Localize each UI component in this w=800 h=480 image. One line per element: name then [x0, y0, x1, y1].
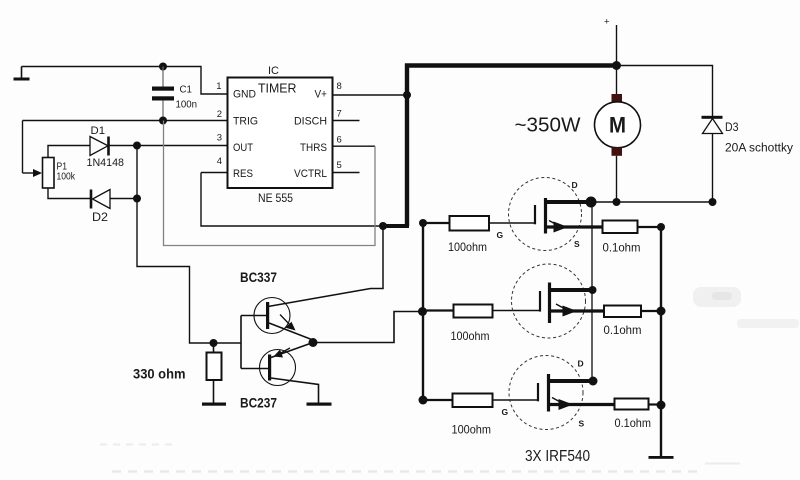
- node motor bottom junction: [613, 198, 621, 206]
- svg-text:OUT: OUT: [233, 142, 253, 154]
- motor M: [595, 94, 641, 156]
- node C1 top junction: [159, 63, 167, 71]
- resistor 330 ohm: [207, 343, 222, 403]
- svg-text:100ohm: 100ohm: [451, 329, 490, 343]
- svg-text:G: G: [497, 230, 504, 240]
- wire gate row1: [423, 222, 450, 224]
- ground top-left: [14, 67, 30, 81]
- resistor R4 0.1ohm: [603, 221, 638, 234]
- svg-text:1: 1: [216, 81, 221, 92]
- resistor R6 0.1ohm: [615, 399, 649, 410]
- node base resistor junction: [210, 339, 218, 347]
- node source rail row1: [657, 223, 665, 231]
- wire THRS feedback loop to C1: [164, 121, 376, 246]
- svg-text:4: 4: [217, 156, 222, 167]
- svg-text:3X IRF540: 3X IRF540: [525, 448, 590, 465]
- wire to P1 wiper: [23, 121, 43, 178]
- svg-text:330 ohm: 330 ohm: [133, 367, 186, 382]
- pin numbers: [216, 81, 342, 171]
- svg-text:DISCH: DISCH: [294, 116, 327, 128]
- node source rail row3: [657, 401, 666, 410]
- node gate rail row3: [419, 396, 428, 405]
- ground source rail: [649, 456, 674, 459]
- svg-text:RES: RES: [233, 168, 253, 180]
- wire thick V+ vertical: [405, 64, 409, 227]
- wire driver output to gate rail: [313, 312, 423, 343]
- ground BC237: [307, 403, 332, 406]
- wire thick V+ node link: [383, 224, 409, 228]
- resistor R5 0.1ohm: [604, 306, 641, 318]
- svg-text:~350W: ~350W: [515, 114, 582, 137]
- node gate rail row2: [418, 307, 427, 316]
- resistor R1 100ohm: [450, 216, 490, 231]
- svg-text:0.1ohm: 0.1ohm: [603, 241, 641, 255]
- svg-text:D: D: [578, 359, 584, 369]
- svg-text:2: 2: [217, 109, 222, 120]
- wire OUT pin3: [109, 145, 228, 147]
- resistor R2 100ohm: [454, 305, 493, 318]
- wire TRIG pin2: [23, 120, 228, 122]
- svg-text:3: 3: [217, 133, 222, 144]
- node TRIG junction: [159, 117, 167, 125]
- wire gate row2: [423, 309, 454, 311]
- svg-text:TIMER: TIMER: [258, 82, 297, 96]
- wire R1 to gate Q3: [489, 222, 535, 224]
- wire drain bus: [591, 202, 593, 381]
- wire gate rail left: [422, 223, 424, 400]
- svg-text:M: M: [609, 113, 626, 138]
- node drain bus row3: [589, 377, 598, 386]
- wire gate row3: [423, 399, 453, 401]
- svg-text:THRS: THRS: [300, 142, 327, 154]
- wire P1 top to D1 anode: [48, 146, 90, 158]
- svg-text:1N4148: 1N4148: [87, 157, 125, 169]
- svg-text:20A schottky: 20A schottky: [725, 143, 793, 155]
- svg-text:VCTRL: VCTRL: [294, 168, 327, 180]
- node drain bus row2: [589, 286, 597, 294]
- svg-text:NE 555: NE 555: [258, 193, 293, 205]
- svg-text:S: S: [574, 239, 580, 249]
- diode D1: [90, 137, 109, 156]
- wire R2 to gate Q4: [493, 310, 541, 312]
- wire drain node to D3 bottom: [591, 201, 713, 203]
- svg-text:+: +: [604, 17, 610, 28]
- svg-text:D3: D3: [725, 120, 739, 134]
- transistor Q5 IRF540 row3: [509, 356, 615, 430]
- node RES/V+ junction: [379, 222, 387, 230]
- wire motor bottom lead: [616, 156, 618, 202]
- transistor Q1 BC337: [241, 298, 313, 343]
- svg-text:0.1ohm: 0.1ohm: [604, 323, 642, 337]
- svg-text:GND: GND: [233, 89, 256, 101]
- transistor Q3 IRF540 row1: [509, 178, 603, 251]
- svg-text:BC237: BC237: [240, 396, 277, 411]
- wire pin5 VCTRL stub: [333, 172, 360, 174]
- node OUT junction: [133, 142, 141, 150]
- wire R4 to source rail: [638, 226, 662, 228]
- wire R5 to source rail: [641, 310, 661, 312]
- label D1 1N4148: [87, 125, 125, 169]
- ground 330 ohm: [202, 403, 226, 406]
- capacitor C1: [152, 67, 174, 121]
- wire pin7 DISCH stub: [333, 120, 360, 122]
- node pin8 junction: [403, 91, 411, 99]
- node D2 junction: [133, 195, 141, 203]
- svg-text:100ohm: 100ohm: [448, 240, 487, 254]
- wire P1 bottom to D2: [48, 188, 91, 199]
- wire source rail right: [660, 227, 662, 457]
- svg-text:100ohm: 100ohm: [452, 423, 492, 437]
- svg-text:BC337: BC337: [240, 270, 277, 285]
- svg-text:S: S: [579, 419, 585, 429]
- wire rail to D3 top: [617, 66, 713, 117]
- svg-text:C1: C1: [180, 85, 193, 96]
- wire thick V+ top rail: [405, 63, 617, 68]
- label C1 value 100n: [176, 85, 198, 111]
- node drain bus row1: [586, 197, 597, 208]
- wire pin4 RES stub: [201, 172, 228, 174]
- svg-text:100k: 100k: [57, 171, 76, 183]
- svg-text:D: D: [572, 180, 578, 190]
- diode D3: [702, 116, 723, 202]
- wire ground to C1 node to pin1 GND: [22, 67, 228, 95]
- op-amp U1 IC box NE555: [228, 78, 333, 189]
- pin labels inside: [233, 89, 327, 181]
- wire OUT down to driver base: [137, 146, 241, 344]
- potentiometer P1: [43, 158, 55, 189]
- wire V+ node down to BC337 collector: [268, 226, 383, 307]
- transistor Q4 IRF540 row2: [512, 264, 605, 338]
- transistor Q2 BC237: [241, 343, 319, 404]
- wire pin6 THRS stub: [333, 145, 376, 147]
- wire R3 to gate Q5: [493, 399, 539, 401]
- svg-text:D1: D1: [91, 125, 106, 137]
- svg-text:D2: D2: [92, 212, 108, 224]
- svg-text:IC: IC: [268, 65, 279, 77]
- wire pin8 V+ stub: [333, 94, 410, 96]
- label P1 100k: [57, 161, 76, 183]
- svg-text:7: 7: [337, 109, 342, 120]
- wire RES loop to V+ node: [201, 173, 383, 227]
- node source rail row2: [657, 307, 666, 316]
- svg-text:TRIG: TRIG: [233, 116, 258, 128]
- node supply junction: [612, 61, 621, 70]
- svg-text:G: G: [502, 407, 509, 417]
- resistor R3 100ohm: [453, 394, 493, 408]
- svg-text:8: 8: [337, 81, 342, 92]
- svg-text:0.1ohm: 0.1ohm: [615, 416, 652, 430]
- svg-text:V+: V+: [315, 89, 328, 101]
- diode D2: [91, 190, 137, 209]
- wire motor top lead: [616, 66, 618, 95]
- svg-text:6: 6: [337, 135, 342, 146]
- node D3 bottom junction: [709, 198, 717, 206]
- svg-text:5: 5: [337, 160, 342, 171]
- node gate rail row1: [419, 219, 427, 227]
- wire supply down to rail: [616, 25, 618, 64]
- node driver output junction: [309, 338, 318, 347]
- svg-text:100n: 100n: [176, 100, 198, 111]
- wire R6 to source rail: [649, 403, 662, 405]
- wire driver base bus: [240, 316, 242, 369]
